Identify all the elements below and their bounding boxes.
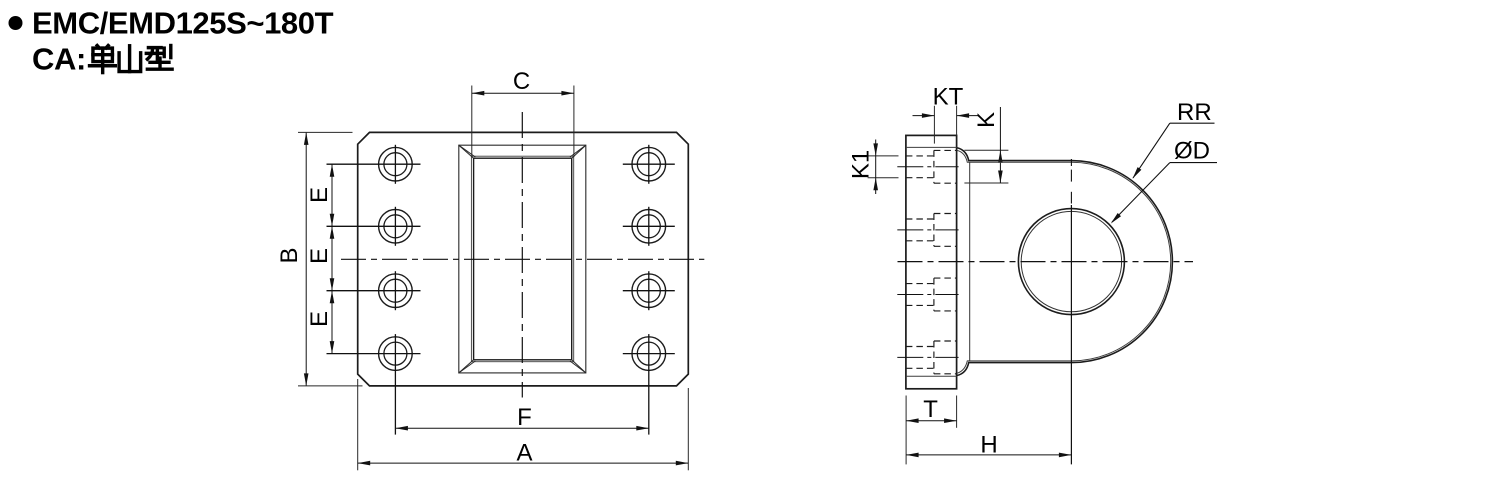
svg-text:K1: K1 [848, 150, 875, 179]
svg-text:E: E [306, 248, 333, 264]
svg-text:A: A [516, 440, 532, 467]
svg-text:ØD: ØD [1174, 138, 1210, 165]
svg-text:T: T [923, 396, 938, 423]
svg-text:CA:: CA: [32, 41, 86, 76]
svg-text:RR: RR [1177, 99, 1212, 126]
svg-text:F: F [517, 404, 532, 431]
svg-text:E: E [306, 311, 333, 327]
svg-text:B: B [276, 247, 303, 263]
svg-text:C: C [513, 68, 530, 95]
svg-text:E: E [306, 187, 333, 203]
svg-text:K: K [973, 112, 1000, 128]
svg-text:KT: KT [933, 83, 964, 110]
svg-text:EMC/EMD125S~180T: EMC/EMD125S~180T [32, 6, 334, 41]
svg-text:H: H [980, 432, 997, 459]
